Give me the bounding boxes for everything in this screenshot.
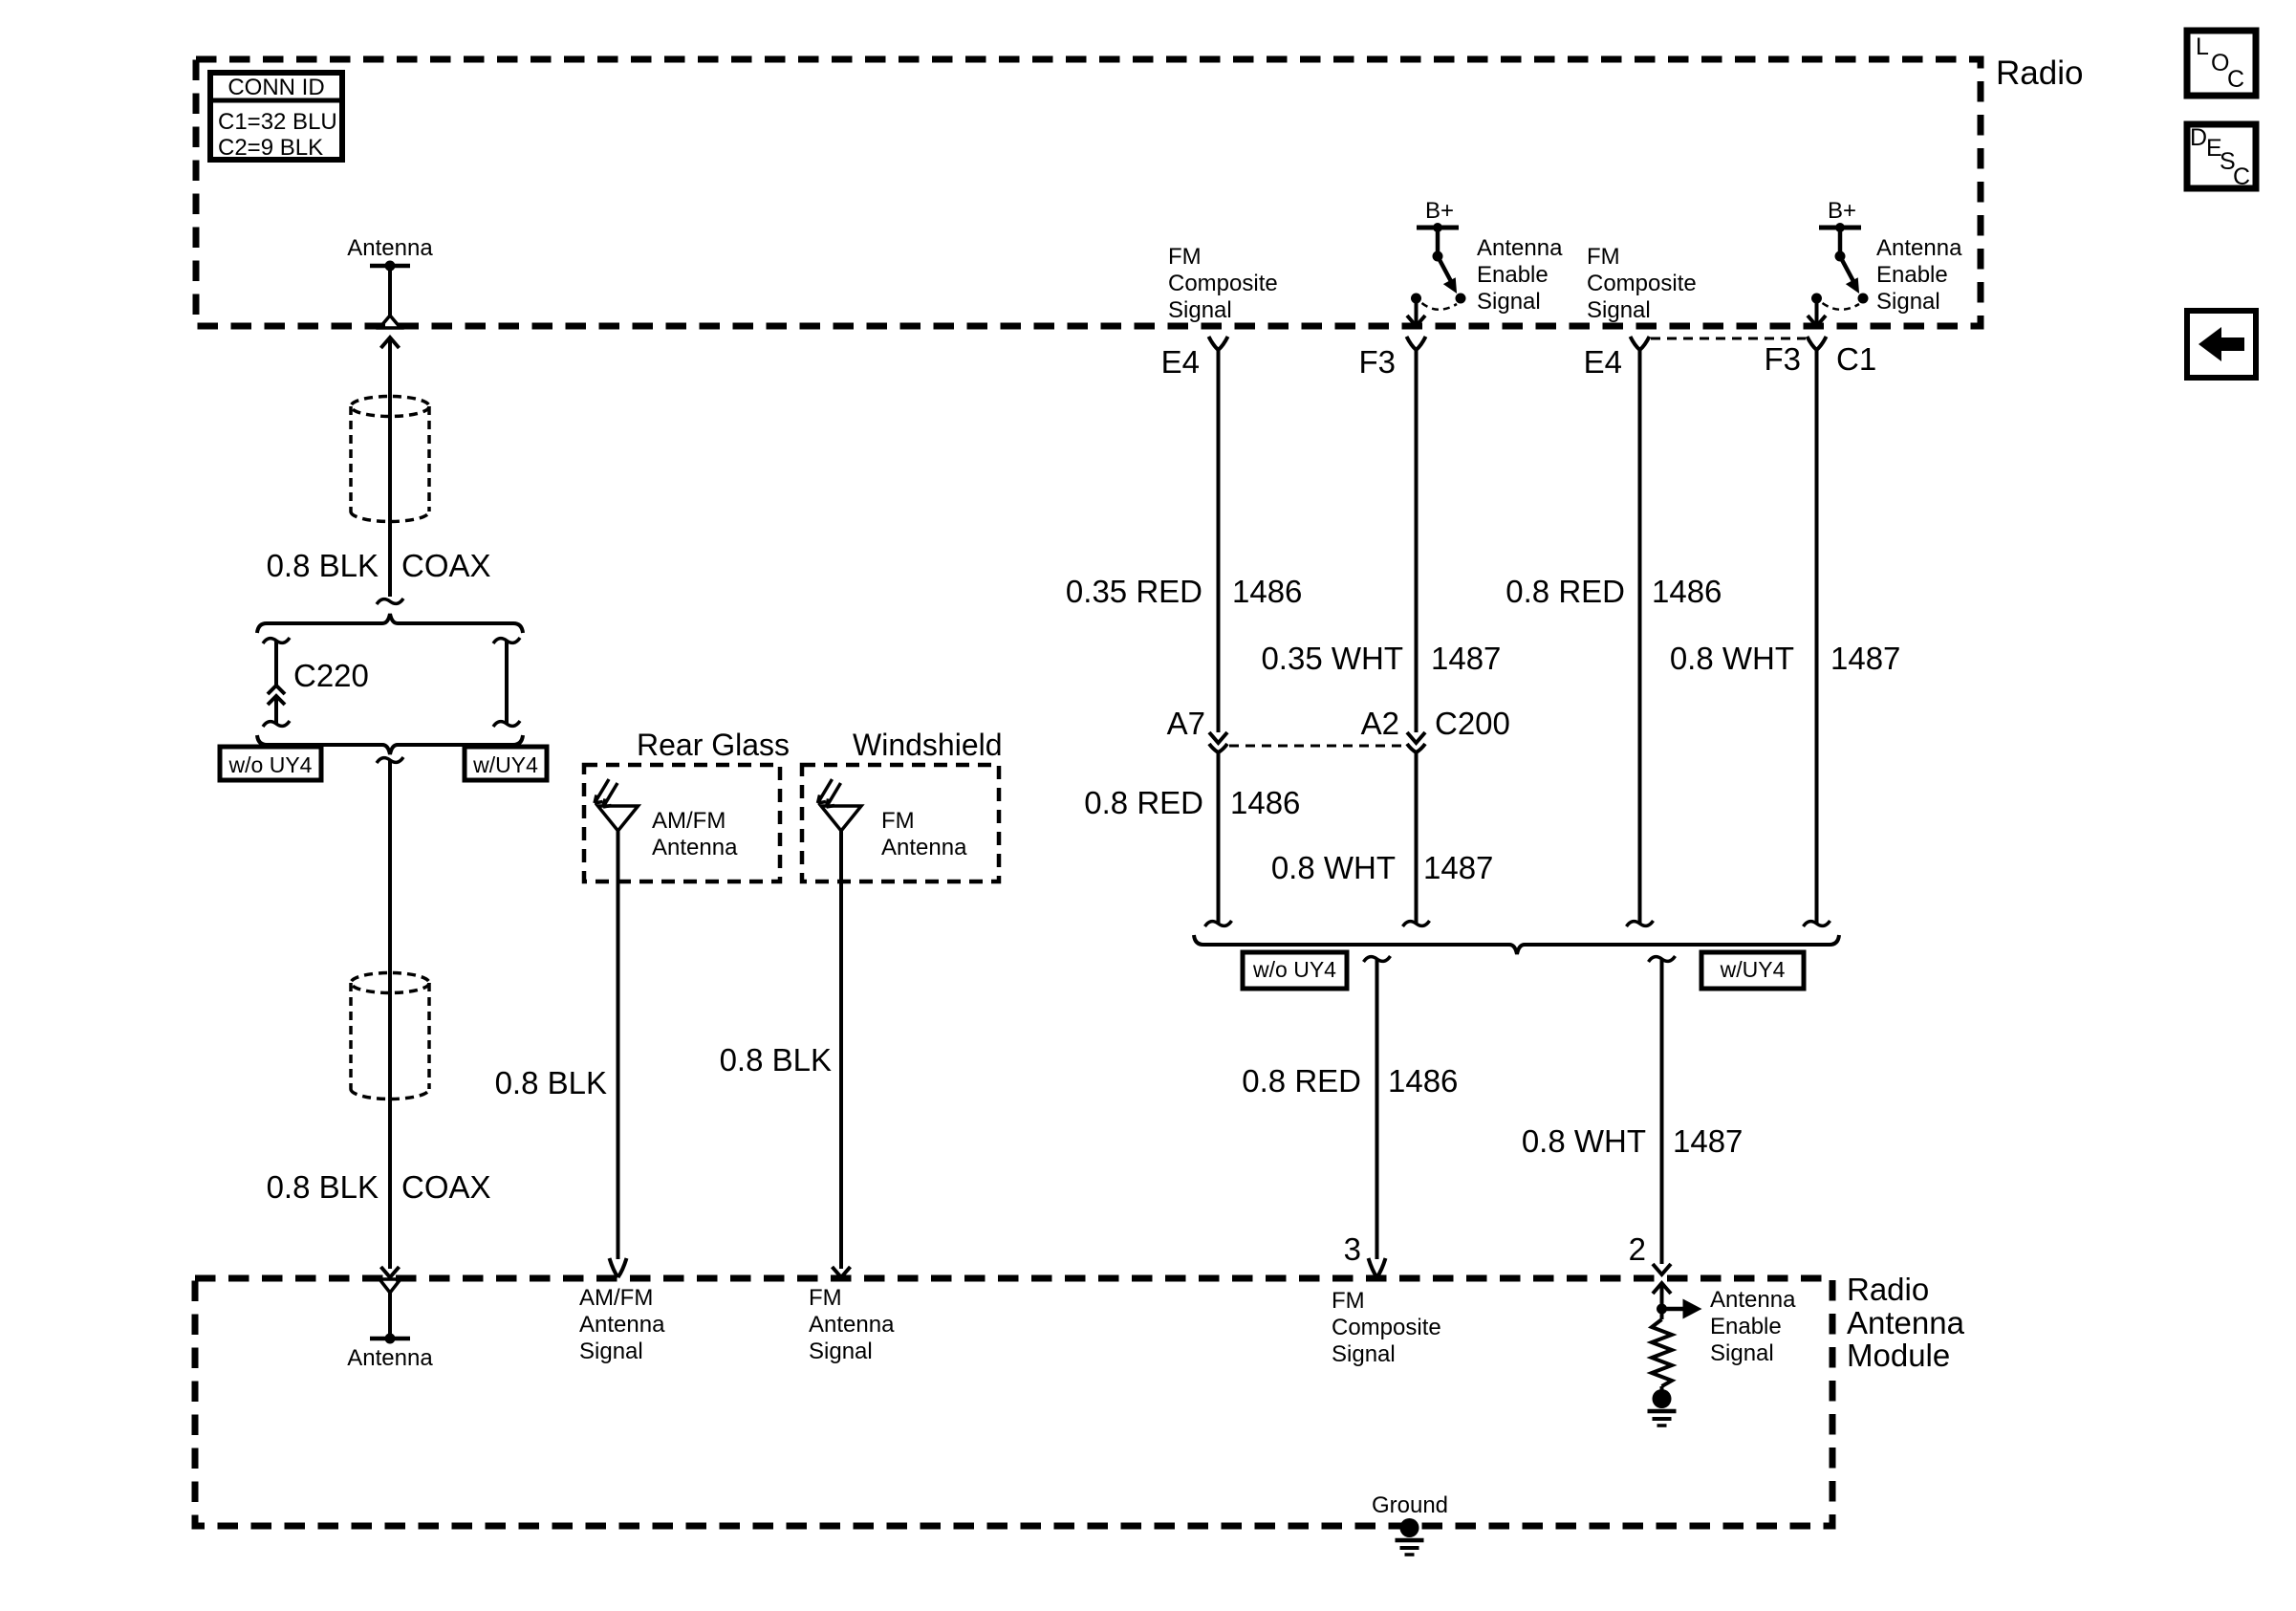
svg-text:Antenna: Antenna [1847,1305,1965,1340]
dashed throw arc [1422,303,1458,310]
C220 right half-connector [493,638,520,643]
svg-text:1486: 1486 [1388,1063,1458,1099]
svg-text:Enable: Enable [1876,262,1948,288]
wire 1486 RED to module [1364,956,1391,962]
pin F3 (C2 connector) [1407,337,1426,350]
svg-text:w/o UY4: w/o UY4 [1252,957,1336,982]
LOC legend box [2187,31,2256,96]
svg-text:w/o UY4: w/o UY4 [228,752,313,777]
svg-text:1487: 1487 [1423,850,1493,885]
node Antenna (module) [379,1279,401,1293]
svg-text:0.8 RED: 0.8 RED [1084,785,1203,820]
svg-text:Antenna: Antenna [652,835,738,860]
dashed throw arc [1823,303,1860,310]
svg-text:Composite: Composite [1587,271,1697,296]
option tag w/o UY4 (left) [220,747,321,780]
svg-text:Radio: Radio [1847,1272,1929,1307]
female coax connector at radio case [379,316,401,328]
pin E4 (w/UY4) [1631,337,1650,350]
svg-text:2: 2 [1629,1231,1646,1267]
switch throw contact [1411,294,1421,304]
Rear Glass dashed box [584,765,780,882]
svg-text:F3: F3 [1764,341,1801,377]
CONN ID table [210,73,342,161]
svg-text:Signal: Signal [809,1339,873,1364]
wire 1487 WHT (A2 down) [1415,752,1419,924]
svg-text:FM: FM [881,808,915,834]
svg-text:Antenna: Antenna [1710,1287,1796,1313]
Windshield dashed box [802,765,999,882]
switch arm with arrowhead [1438,256,1453,285]
svg-text:w/UY4: w/UY4 [472,752,538,777]
svg-text:0.8 RED: 0.8 RED [1505,574,1625,609]
svg-text:1486: 1486 [1652,574,1722,609]
switch pivot [1835,251,1846,262]
svg-text:Composite: Composite [1168,271,1278,296]
svg-text:1486: 1486 [1232,574,1302,609]
svg-text:A7: A7 [1167,706,1205,741]
svg-text:3: 3 [1344,1231,1361,1267]
svg-text:1487: 1487 [1830,641,1900,676]
wire AM/FM antenna signal [617,882,620,1259]
harness brace [1194,935,1839,954]
svg-text:0.8 RED: 0.8 RED [1242,1063,1361,1099]
svg-text:0.35 WHT: 0.35 WHT [1261,641,1403,676]
option tag w/UY4 (right) [1701,952,1804,989]
svg-text:COAX: COAX [401,548,491,583]
coax shield symbol (lower) [351,973,429,993]
svg-text:C1: C1 [1836,341,1876,377]
svg-text:Composite: Composite [1332,1315,1441,1340]
svg-text:Antenna: Antenna [881,835,967,860]
wire 1487 WHT (w/UY4 F3) [1815,350,1819,924]
svg-text:E4: E4 [1161,344,1200,380]
Radio component dashed box [196,59,1981,326]
svg-text:Antenna: Antenna [347,1345,433,1371]
pin E4 (C2 connector) [1209,337,1228,350]
wire 1487 WHT (F3 to A2) [1415,350,1419,732]
wire 1486 RED (A7 down) [1217,752,1221,924]
svg-text:Enable: Enable [1477,262,1549,288]
arrow into module [381,1267,400,1277]
svg-text:C200: C200 [1435,706,1510,741]
svg-text:Antenna: Antenna [347,235,433,261]
svg-text:Ground: Ground [1372,1492,1448,1518]
C220 left half-connector [263,638,290,643]
svg-text:D: D [2190,124,2207,151]
svg-text:Rear Glass: Rear Glass [637,728,790,762]
wire coax upper segment [388,337,392,597]
wire to connector [1415,298,1419,323]
wire 1487 WHT to module [1649,956,1676,962]
pin A2 connector C200 [1407,732,1425,743]
wire FM antenna signal [839,882,843,1269]
svg-text:Signal: Signal [1587,297,1651,323]
svg-text:Antenna: Antenna [1477,235,1563,261]
svg-text:0.8 BLK: 0.8 BLK [720,1042,832,1078]
svg-text:F3: F3 [1358,344,1396,380]
ground (enable resistor) [1653,1389,1672,1408]
wire 1486 RED (E4 to A7) [1217,350,1221,732]
svg-text:0.8 BLK: 0.8 BLK [267,548,379,583]
B+ supply bar [1417,226,1459,230]
svg-text:A2: A2 [1361,706,1399,741]
svg-text:Windshield: Windshield [853,728,1003,762]
svg-text:Signal: Signal [1168,297,1232,323]
svg-text:B+: B+ [1425,198,1454,224]
wire hook below C220 [377,757,403,763]
svg-text:Signal: Signal [579,1339,643,1364]
svg-text:Module: Module [1847,1338,1950,1373]
option tag w/o UY4 (right) [1243,952,1347,989]
svg-text:E4: E4 [1584,344,1622,380]
svg-text:L: L [2196,33,2209,60]
svg-text:FM: FM [1332,1288,1365,1314]
connector C220 brace (bottom) [257,735,523,754]
svg-text:1487: 1487 [1673,1123,1743,1159]
svg-text:0.8 BLK: 0.8 BLK [267,1169,379,1205]
svg-text:AM/FM: AM/FM [652,808,726,834]
svg-text:C2=9 BLK: C2=9 BLK [218,135,323,161]
resistor (antenna enable load) [1652,1319,1672,1386]
option tag w/UY4 (left) [465,747,547,780]
svg-text:0.8 WHT: 0.8 WHT [1670,641,1794,676]
AM/FM antenna symbol (rear glass) [598,806,639,831]
svg-text:Antenna: Antenna [809,1312,895,1338]
svg-text:Signal: Signal [1332,1341,1396,1367]
antenna enable input arrow [1653,1283,1671,1294]
svg-text:FM: FM [1587,244,1620,270]
svg-text:Antenna: Antenna [1876,235,1962,261]
svg-text:FM: FM [809,1285,842,1311]
Radio Antenna Module dashed box [195,1278,1832,1526]
svg-text:0.8 BLK: 0.8 BLK [495,1065,607,1100]
wire break hook above C220 [377,599,403,604]
coax shield symbol (upper) [351,397,429,417]
pin F3 C1 (w/UY4) [1808,337,1827,350]
svg-text:1487: 1487 [1431,641,1501,676]
connector C220 brace (top) [257,614,523,633]
svg-text:0.8 WHT: 0.8 WHT [1522,1123,1646,1159]
svg-text:0.35 RED: 0.35 RED [1066,574,1202,609]
svg-text:0.8 WHT: 0.8 WHT [1271,850,1396,885]
svg-text:w/UY4: w/UY4 [1720,957,1786,982]
svg-text:Radio: Radio [1996,54,2083,92]
svg-text:Signal: Signal [1710,1340,1774,1366]
svg-text:B+: B+ [1828,198,1856,224]
switch throw contact [1811,294,1822,304]
back-arrow legend box [2187,311,2256,378]
svg-text:Signal: Signal [1477,289,1541,315]
B+ supply bar [1819,226,1861,230]
switch arm with arrowhead [1840,256,1855,285]
svg-text:C: C [2233,163,2250,190]
Antenna Enable Signal pointer [1662,1307,1685,1312]
svg-text:C1=32 BLU: C1=32 BLU [218,109,337,135]
male coax arrow below case [381,337,400,348]
dashed link A7-A2 (C200) [1229,745,1405,748]
svg-text:Signal: Signal [1876,289,1940,315]
wire 1486 RED (w/UY4 E4) [1638,350,1642,924]
wire coax lower segment [388,760,392,1269]
pin A7 connector C200 [1209,732,1227,743]
svg-text:1486: 1486 [1230,785,1300,820]
FM antenna symbol (windshield) [821,806,861,831]
wire to connector [1815,298,1819,323]
svg-text:CONN ID: CONN ID [227,75,324,100]
svg-text:FM: FM [1168,244,1202,270]
svg-text:Antenna: Antenna [579,1312,665,1338]
svg-text:AM/FM: AM/FM [579,1285,653,1311]
svg-text:COAX: COAX [401,1169,491,1205]
DESC legend box [2187,124,2256,190]
svg-text:C: C [2227,66,2244,93]
switch pivot [1433,251,1443,262]
svg-text:C220: C220 [293,658,369,693]
dashed link between E4 and F3 pins [1651,337,1806,340]
svg-text:Enable: Enable [1710,1314,1782,1339]
